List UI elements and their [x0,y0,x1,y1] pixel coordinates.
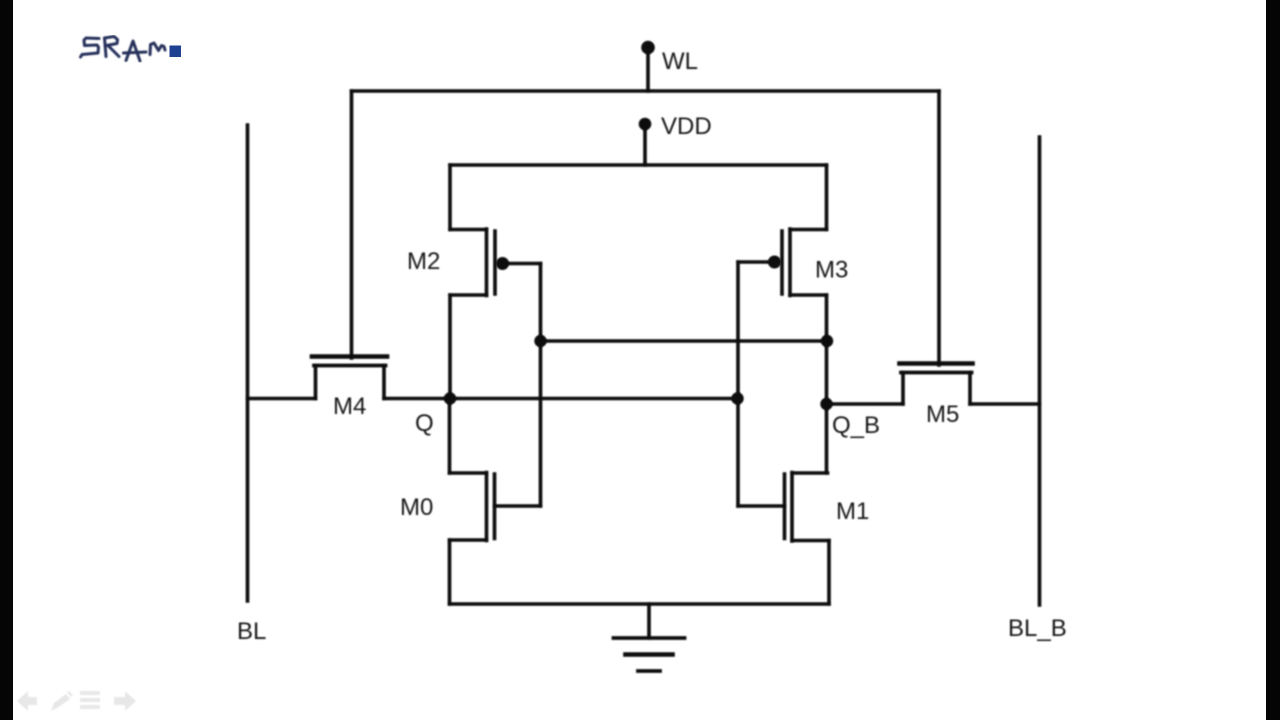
svg-text:M2: M2 [407,248,440,275]
svg-text:WL: WL [662,48,698,75]
svg-text:M0: M0 [400,494,433,521]
svg-text:M5: M5 [926,401,959,428]
svg-text:M1: M1 [836,498,869,525]
svg-text:Q: Q [415,410,434,437]
svg-text:BL_B: BL_B [1008,615,1067,642]
svg-text:VDD: VDD [661,113,712,140]
svg-text:M4: M4 [333,393,366,420]
svg-text:Q_B: Q_B [832,412,880,439]
svg-text:BL: BL [237,618,266,645]
svg-text:M3: M3 [815,257,848,284]
